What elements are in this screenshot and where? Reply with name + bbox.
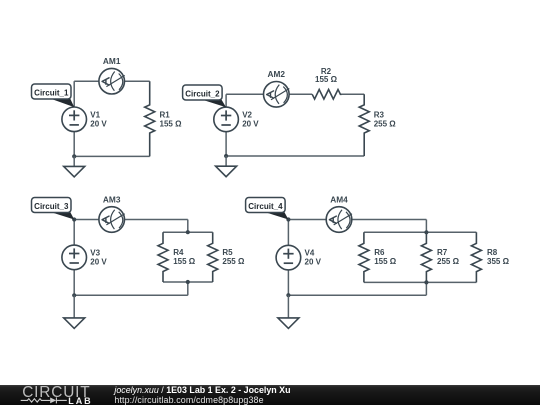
wire C4 feed to bottom bbox=[425, 282, 427, 295]
label R8 value bbox=[487, 248, 510, 266]
wire C3 feed down bbox=[187, 220, 189, 233]
wire C4 bottom rail bbox=[364, 281, 477, 283]
wire C2 ammeter to R2 bbox=[289, 93, 312, 95]
wire C3 feed to bottom bbox=[187, 282, 189, 295]
wire C1 bottom bbox=[74, 155, 150, 157]
label V4 value bbox=[305, 249, 322, 267]
resistor R4 bbox=[158, 232, 168, 282]
wire C2 bottom bbox=[226, 155, 364, 157]
wire C4 feed down bbox=[425, 220, 427, 233]
ground bbox=[278, 295, 299, 328]
resistor R7 bbox=[421, 232, 431, 282]
wire C2 R2 to corner bbox=[340, 93, 364, 95]
junction bbox=[424, 230, 428, 234]
wire C4 node to ammeter bbox=[288, 219, 326, 221]
resistor R2 bbox=[312, 90, 340, 100]
wire C3 bottom rail bbox=[163, 281, 213, 283]
junction bbox=[424, 280, 428, 284]
wire C2 top-left bbox=[226, 93, 263, 95]
label V2 value bbox=[242, 110, 259, 128]
junction bbox=[72, 217, 76, 221]
label R7 value bbox=[437, 248, 460, 266]
wire C2 below V2 bbox=[225, 132, 227, 156]
label R4 value bbox=[173, 248, 196, 266]
ground bbox=[64, 295, 85, 328]
wire C3 bottom bbox=[74, 294, 188, 296]
ammeter AM1 bbox=[99, 68, 125, 94]
resistor R6 bbox=[359, 232, 369, 282]
label R1 value bbox=[160, 110, 183, 128]
wire C3 below V3 bbox=[73, 270, 75, 296]
resistor R8 bbox=[471, 232, 481, 282]
ground bbox=[216, 156, 237, 177]
logo LAB bbox=[68, 397, 92, 406]
wire C1 left bbox=[73, 81, 75, 107]
resistor R1 bbox=[145, 81, 155, 156]
ammeter AM3 bbox=[99, 207, 125, 233]
wire C4 left bbox=[287, 220, 289, 246]
voltage source V1 bbox=[62, 107, 87, 132]
wire C1 below V1 bbox=[73, 132, 75, 157]
label R2 value bbox=[315, 67, 338, 84]
label Circuit_1 bbox=[32, 84, 75, 107]
wire C2 left bbox=[225, 94, 227, 107]
wire C4 below V4 bbox=[287, 270, 289, 295]
wire C3 ammeter to feed bbox=[125, 219, 188, 221]
junction bbox=[72, 293, 76, 297]
label V3 value bbox=[90, 248, 107, 266]
label R6 value bbox=[374, 248, 397, 266]
label Circuit_4 bbox=[246, 198, 289, 220]
junction bbox=[224, 154, 228, 158]
label Circuit_2 bbox=[183, 85, 227, 107]
wire C4 bottom bbox=[288, 294, 426, 296]
wire C3 top rail bbox=[163, 231, 213, 233]
junction bbox=[186, 280, 190, 284]
voltage source V2 bbox=[214, 107, 239, 132]
junction bbox=[286, 217, 290, 221]
wire C3 left bbox=[73, 220, 75, 246]
ammeter AM4 bbox=[326, 207, 352, 233]
resistor R5 bbox=[208, 232, 218, 282]
wire C1 top-right bbox=[125, 80, 150, 82]
wire C4 top rail bbox=[364, 231, 477, 233]
wire C1 top-left bbox=[74, 80, 99, 82]
label Circuit_3 bbox=[32, 198, 75, 220]
logo CIRCUIT bbox=[22, 385, 90, 400]
voltage source V4 bbox=[276, 245, 301, 270]
label R5 value bbox=[222, 248, 245, 266]
ground bbox=[64, 156, 85, 177]
wire C3 node to ammeter bbox=[74, 219, 99, 221]
footer bar bbox=[0, 385, 540, 406]
footer text line 2 bbox=[114, 395, 263, 405]
junction bbox=[186, 230, 190, 234]
ammeter AM2 bbox=[264, 82, 290, 108]
wire C4 ammeter to feed bbox=[352, 219, 427, 221]
junction bbox=[72, 154, 76, 158]
junction bbox=[286, 293, 290, 297]
label V1 value bbox=[90, 110, 107, 128]
resistor R3 bbox=[359, 94, 369, 156]
footer text line 1 bbox=[114, 385, 290, 395]
label R3 value bbox=[374, 110, 397, 128]
voltage source V3 bbox=[62, 245, 87, 270]
